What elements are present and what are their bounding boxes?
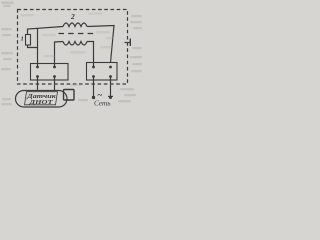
svg-text:Сеть: Сеть	[94, 101, 111, 108]
terminal dot right block 3	[92, 75, 95, 78]
wire right block to mains terminal (left)	[93, 77, 95, 98]
mains terminal tick right	[108, 96, 113, 97]
resistor 1	[26, 35, 31, 46]
scan background	[0, 0, 143, 111]
terminal dot right block 4	[109, 75, 112, 78]
mains terminal dot right	[109, 96, 112, 99]
terminal dot left block 2	[53, 66, 56, 69]
winding 2 (upper)	[63, 23, 87, 27]
sensor label frame	[25, 92, 58, 105]
terminal block right	[87, 63, 118, 81]
wire left block to sensor (left)	[37, 77, 39, 91]
svg-text:ДНОТ: ДНОТ	[28, 99, 54, 106]
terminal dot right block 2	[109, 66, 112, 69]
winding (lower)	[63, 42, 87, 46]
svg-text:1: 1	[21, 36, 24, 43]
terminal block left	[31, 64, 69, 81]
scan noise (bleed-through smudges)	[1, 2, 142, 106]
wire lower winding left to left block	[55, 42, 64, 68]
enclosure dashed border	[18, 10, 128, 85]
wire upper winding to right corner	[87, 26, 114, 63]
svg-text:~: ~	[98, 90, 103, 100]
terminal dot left block 1	[36, 66, 39, 69]
wire lower winding right to right block	[87, 42, 94, 68]
mains terminal dot left	[92, 96, 95, 99]
svg-text:2: 2	[70, 12, 75, 21]
wire left block to sensor (right)	[54, 77, 56, 91]
wire resistor bottom to vertical	[28, 45, 38, 48]
sensor head box	[64, 90, 75, 101]
terminal dot left block 3	[36, 75, 39, 78]
wire vertical from top rail to left block terminal	[37, 28, 39, 67]
terminal dot right block 1	[92, 66, 95, 69]
boundary terminal tick on right border	[125, 42, 132, 44]
sensor oval	[16, 91, 68, 108]
transformer core	[59, 33, 96, 35]
wire resistor top to top rail	[28, 27, 64, 35]
wire right block to mains terminal (right)	[110, 77, 112, 98]
terminal dot left block 4	[53, 75, 56, 78]
